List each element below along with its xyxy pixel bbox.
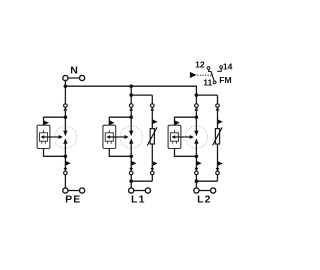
- svg-text:12: 12: [195, 59, 205, 69]
- svg-text:11: 11: [203, 78, 212, 88]
- svg-text:FM: FM: [219, 75, 231, 85]
- svg-text:14: 14: [223, 62, 233, 72]
- svg-text:L1: L1: [131, 194, 146, 206]
- svg-text:L2: L2: [197, 194, 212, 206]
- svg-text:N: N: [70, 65, 78, 77]
- svg-text:PE: PE: [65, 194, 81, 206]
